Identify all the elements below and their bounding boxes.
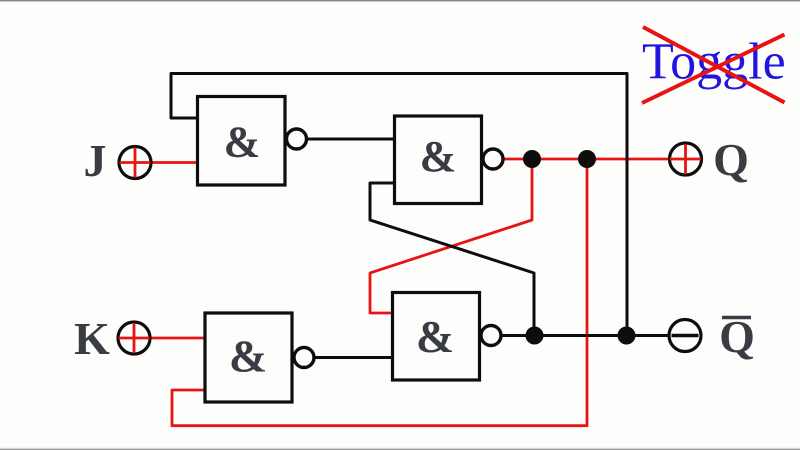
terminal K: red plus — [119, 323, 150, 353]
nand gate U1 body — [198, 97, 286, 186]
svg-text:&: & — [229, 331, 267, 382]
terminal Q: red plus — [670, 144, 701, 174]
junction node C on Q-bar net — [526, 327, 544, 345]
junction node D on Q-bar net — [618, 327, 636, 345]
terminal J: circle — [119, 147, 151, 179]
annotation cross stroke 2 — [642, 35, 785, 104]
junction node A on Q net — [523, 150, 541, 168]
label Q-bar overline — [722, 316, 751, 319]
wire: K input (red) from K terminal to U3 input — [134, 337, 206, 340]
wire: Q output net (red) from U2 bubble to Q terminal — [501, 158, 669, 161]
terminal Q: circle — [670, 143, 702, 175]
terminal K: circle — [118, 322, 150, 354]
nand gate U4 body — [393, 293, 480, 381]
wire: J input (red) from J terminal to U1 input — [135, 161, 198, 164]
svg-text:&: & — [416, 311, 454, 362]
svg-text:&: & — [420, 132, 457, 181]
nand gate U4 output bubble — [481, 326, 501, 346]
terminal Q-bar: circle — [669, 320, 701, 352]
terminal Q-bar: black minus — [672, 334, 699, 337]
junction node B on Q net — [578, 150, 596, 168]
nand gate U3 output bubble — [294, 348, 314, 368]
wire: black cross-coupling from U2 lower input down-diagonal to node C — [370, 183, 534, 336]
nand gate U1 output bubble — [287, 129, 307, 149]
terminal J: red plus — [120, 148, 151, 178]
svg-text:J: J — [84, 135, 107, 186]
svg-text:Toggle: Toggle — [642, 34, 786, 91]
wire: U3 output to U4 lower input (black) — [313, 356, 393, 359]
wire: U1 output to U2 upper input (black) — [306, 138, 395, 141]
svg-text:Q: Q — [713, 134, 749, 185]
annotation cross stroke 1 — [643, 27, 785, 103]
wire: red feedback from node B down, across bottom, up to U3 lower input — [172, 159, 587, 426]
svg-text:&: & — [224, 118, 261, 167]
wire: top feedback (black) from U1 upper input up over to Q-bar node D — [171, 74, 627, 336]
wire: Q-bar output net (black) from U4 bubble to Q-bar terminal — [500, 334, 669, 337]
wire: red cross-coupling from node A down-diagonal to U4 upper input — [370, 159, 532, 313]
nand gate U2 output bubble — [483, 149, 503, 169]
svg-text:K: K — [74, 313, 110, 364]
nand gate U3 body — [205, 313, 292, 402]
nand gate U2 body — [395, 116, 482, 204]
